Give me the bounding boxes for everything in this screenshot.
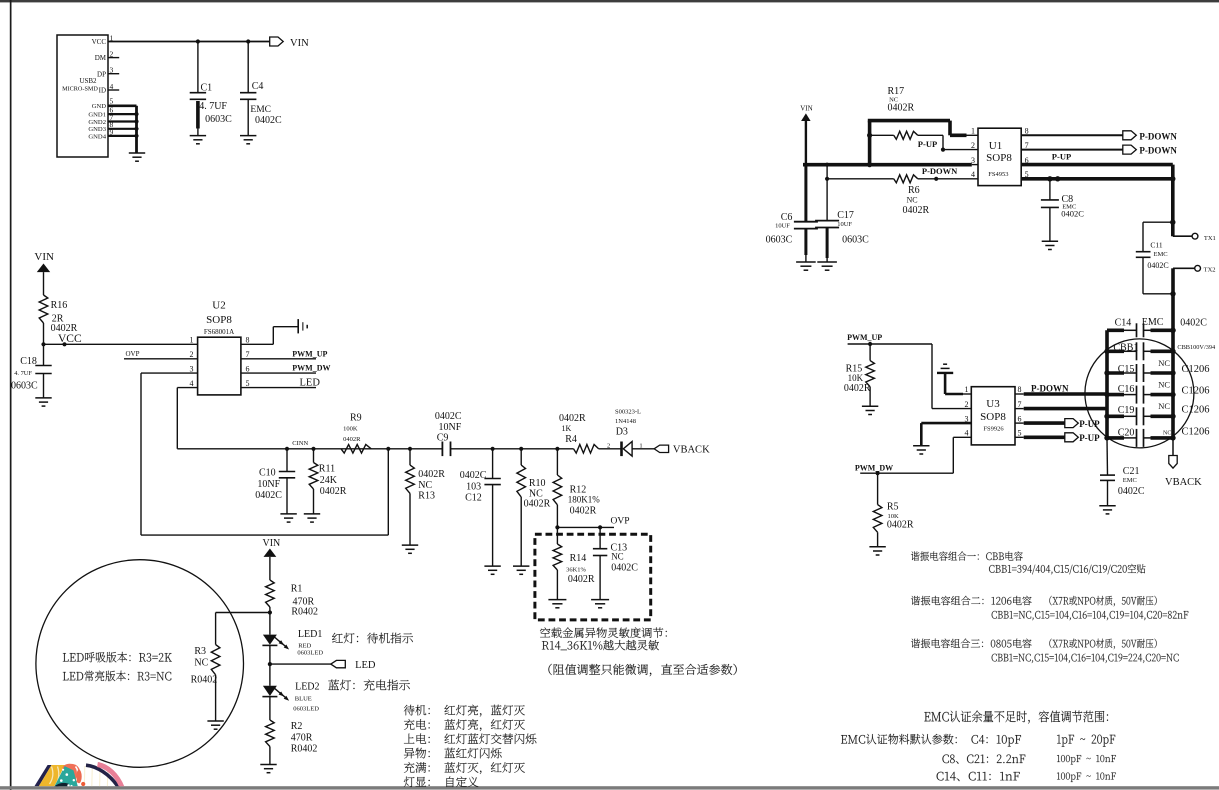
svg-text:NC: NC (907, 196, 918, 205)
svg-text:10NF: 10NF (257, 479, 280, 490)
svg-text:0402R: 0402R (343, 436, 361, 443)
svg-text:0402C: 0402C (255, 115, 282, 126)
svg-text:PWM_DW: PWM_DW (855, 464, 893, 473)
svg-text:24K: 24K (320, 475, 338, 486)
svg-text:VBACK: VBACK (1165, 477, 1202, 488)
svg-text:GND4: GND4 (88, 133, 106, 140)
svg-text:CBB100V/394: CBB100V/394 (1177, 344, 1216, 351)
svg-text:CINN: CINN (292, 440, 308, 447)
svg-text:C18: C18 (20, 356, 37, 367)
svg-text:0402R: 0402R (568, 574, 595, 585)
svg-text:D3: D3 (616, 427, 628, 438)
svg-text:EMC: EMC (1154, 251, 1168, 258)
svg-text:1N4148: 1N4148 (615, 418, 636, 425)
svg-text:VIN: VIN (290, 38, 309, 49)
svg-text:7: 7 (1025, 141, 1029, 150)
svg-text:C4: C4 (252, 81, 264, 92)
svg-text:C20: C20 (1118, 427, 1135, 438)
svg-text:PWM_UP: PWM_UP (292, 349, 327, 358)
svg-text:0402R: 0402R (524, 499, 551, 510)
svg-text:2: 2 (965, 400, 969, 409)
svg-text:OVP: OVP (126, 350, 140, 358)
svg-text:P-UP: P-UP (1052, 152, 1071, 162)
svg-text:180K1%: 180K1% (568, 494, 600, 504)
svg-text:NC: NC (194, 658, 208, 669)
svg-text:100K: 100K (343, 426, 358, 433)
svg-text:R4: R4 (565, 434, 577, 445)
svg-text:4. 7UF: 4. 7UF (14, 370, 32, 377)
svg-text:10NF: 10NF (439, 422, 462, 433)
svg-text:2: 2 (607, 442, 610, 449)
svg-text:8: 8 (1025, 127, 1029, 136)
svg-text:SOP8: SOP8 (986, 152, 1012, 164)
svg-text:7: 7 (1018, 400, 1022, 409)
svg-text:R1: R1 (291, 584, 303, 595)
svg-text:ID: ID (99, 87, 106, 95)
svg-text:C1: C1 (201, 83, 213, 94)
svg-text:NC: NC (1158, 358, 1170, 368)
svg-text:VCC: VCC (92, 38, 107, 46)
svg-text:2: 2 (110, 49, 114, 58)
svg-text:7: 7 (246, 350, 250, 359)
svg-text:4: 4 (971, 170, 975, 179)
svg-text:10UF: 10UF (837, 221, 852, 228)
svg-text:R0402: R0402 (291, 744, 318, 755)
svg-text:VIN: VIN (800, 105, 812, 113)
svg-text:470R: 470R (291, 733, 313, 744)
svg-text:4: 4 (965, 429, 969, 438)
svg-text:U1: U1 (989, 140, 1002, 152)
svg-text:C14: C14 (1115, 318, 1132, 329)
svg-text:5: 5 (246, 379, 250, 388)
svg-text:1: 1 (965, 385, 969, 394)
svg-text:0402R: 0402R (903, 205, 930, 216)
svg-text:R2: R2 (291, 721, 303, 732)
svg-text:P-DOWN: P-DOWN (922, 166, 958, 176)
svg-text:DM: DM (95, 54, 107, 62)
svg-text:SOP8: SOP8 (206, 314, 232, 326)
svg-text:R13: R13 (418, 491, 435, 502)
svg-text:NC: NC (1163, 430, 1171, 436)
svg-text:1K: 1K (562, 424, 572, 433)
svg-text:C15: C15 (1118, 364, 1135, 375)
svg-text:0402C: 0402C (611, 563, 638, 574)
svg-text:C17: C17 (837, 210, 854, 221)
svg-text:R11: R11 (319, 464, 335, 475)
svg-text:P-DOWN: P-DOWN (1139, 146, 1177, 156)
svg-text:0603C: 0603C (842, 235, 869, 246)
svg-text:0603LED: 0603LED (297, 649, 323, 656)
svg-text:U3: U3 (986, 398, 1000, 410)
svg-text:3: 3 (971, 156, 975, 165)
svg-text:0402R: 0402R (418, 469, 445, 480)
svg-text:2: 2 (971, 141, 975, 150)
svg-text:10UF: 10UF (775, 223, 790, 230)
svg-text:103: 103 (466, 482, 481, 493)
svg-text:0402C: 0402C (1180, 318, 1207, 329)
svg-text:5: 5 (110, 97, 114, 106)
svg-text:0402C: 0402C (255, 490, 282, 501)
svg-text:0603C: 0603C (205, 114, 232, 125)
svg-text:8: 8 (246, 336, 250, 345)
svg-text:P-DOWN: P-DOWN (1139, 131, 1177, 141)
svg-text:VIN: VIN (34, 251, 54, 263)
svg-text:0603LED: 0603LED (293, 706, 319, 713)
svg-text:P-UP: P-UP (918, 139, 937, 149)
svg-text:R3: R3 (194, 646, 206, 657)
svg-text:LED2: LED2 (295, 682, 319, 693)
svg-text:U2: U2 (212, 300, 225, 312)
svg-text:C11: C11 (1150, 240, 1162, 249)
svg-text:RED: RED (298, 642, 311, 649)
svg-text:0402R: 0402R (559, 413, 586, 424)
svg-text:SOP8: SOP8 (980, 411, 1006, 423)
svg-text:LED1: LED1 (298, 629, 322, 640)
svg-text:0402R: 0402R (844, 383, 871, 394)
svg-text:C19: C19 (1118, 405, 1135, 416)
svg-text:3: 3 (110, 66, 114, 75)
svg-text:R0402: R0402 (191, 675, 218, 686)
svg-text:R10: R10 (529, 478, 546, 489)
svg-text:C21: C21 (1123, 466, 1140, 477)
svg-text:S00323-L: S00323-L (615, 409, 641, 416)
svg-text:3: 3 (190, 364, 194, 373)
svg-text:4. 7UF: 4. 7UF (199, 101, 227, 112)
svg-text:GND1: GND1 (88, 112, 106, 119)
svg-text:1: 1 (971, 127, 975, 136)
svg-text:NC: NC (418, 480, 432, 491)
svg-text:C1206: C1206 (1182, 426, 1210, 437)
svg-text:C12: C12 (465, 493, 482, 504)
svg-text:4: 4 (190, 379, 194, 388)
svg-text:VCC: VCC (58, 333, 82, 345)
svg-text:P-UP: P-UP (1079, 433, 1100, 443)
svg-text:P-DOWN: P-DOWN (1031, 383, 1069, 393)
svg-text:GND2: GND2 (88, 119, 106, 126)
svg-text:C10: C10 (259, 468, 276, 479)
svg-text:R6: R6 (908, 185, 920, 196)
svg-text:FS9926: FS9926 (983, 426, 1004, 433)
svg-text:0402R: 0402R (570, 506, 597, 517)
svg-text:R9: R9 (350, 413, 362, 424)
svg-text:MICRO-SMD: MICRO-SMD (62, 86, 98, 93)
svg-text:0402R: 0402R (887, 519, 914, 530)
svg-text:EMC: EMC (1142, 317, 1164, 328)
svg-text:LED: LED (300, 377, 321, 388)
svg-text:C1206: C1206 (1182, 386, 1210, 397)
svg-text:4: 4 (110, 82, 114, 91)
svg-text:TX2: TX2 (1204, 267, 1216, 274)
svg-text:R0402: R0402 (291, 607, 318, 618)
svg-text:C6: C6 (781, 212, 793, 223)
svg-text:EMC: EMC (1123, 477, 1137, 484)
svg-text:0402C: 0402C (1147, 261, 1168, 270)
svg-text:0603C: 0603C (766, 235, 793, 246)
svg-text:GND3: GND3 (88, 126, 106, 133)
svg-text:LED: LED (355, 660, 376, 671)
svg-text:FS4953: FS4953 (988, 171, 1008, 178)
svg-text:NC: NC (1158, 401, 1170, 411)
svg-text:6: 6 (246, 364, 250, 373)
svg-text:PWM_DW: PWM_DW (292, 364, 330, 373)
svg-text:0402C: 0402C (460, 470, 487, 481)
svg-text:OVP: OVP (611, 516, 630, 526)
svg-text:9: 9 (110, 127, 114, 136)
svg-text:R14: R14 (570, 553, 587, 564)
svg-text:6: 6 (1018, 414, 1022, 423)
svg-text:PWM_UP: PWM_UP (847, 333, 882, 342)
svg-text:0402R: 0402R (888, 102, 915, 113)
svg-text:USB2: USB2 (79, 77, 97, 85)
svg-text:R16: R16 (51, 300, 68, 311)
svg-text:0402C: 0402C (1061, 208, 1084, 218)
svg-text:EMC: EMC (250, 105, 271, 115)
svg-text:2: 2 (190, 350, 194, 359)
svg-text:C1206: C1206 (1182, 405, 1210, 416)
svg-text:36K1%: 36K1% (566, 566, 586, 573)
svg-text:FS68001A: FS68001A (204, 328, 234, 336)
svg-text:C16: C16 (1118, 384, 1135, 395)
svg-text:NC: NC (1158, 380, 1170, 390)
svg-text:P-UP: P-UP (1079, 419, 1100, 429)
svg-text:C9: C9 (437, 433, 449, 444)
svg-text:GND: GND (92, 103, 107, 110)
svg-text:R5: R5 (887, 502, 899, 513)
svg-text:5: 5 (1018, 429, 1022, 438)
svg-text:VIN: VIN (263, 538, 281, 549)
svg-text:DP: DP (97, 70, 106, 78)
svg-text:8: 8 (1018, 385, 1022, 394)
svg-text:0402C: 0402C (435, 411, 462, 422)
svg-text:NC: NC (611, 552, 624, 562)
svg-text:BLUE: BLUE (295, 695, 312, 702)
svg-text:0402C: 0402C (1118, 486, 1145, 497)
svg-text:0402R: 0402R (320, 486, 347, 497)
svg-text:VBACK: VBACK (673, 444, 710, 455)
svg-text:TX1: TX1 (1204, 235, 1216, 242)
svg-text:10K: 10K (848, 373, 864, 383)
svg-text:1: 1 (190, 336, 194, 345)
svg-text:0603C: 0603C (11, 381, 38, 392)
